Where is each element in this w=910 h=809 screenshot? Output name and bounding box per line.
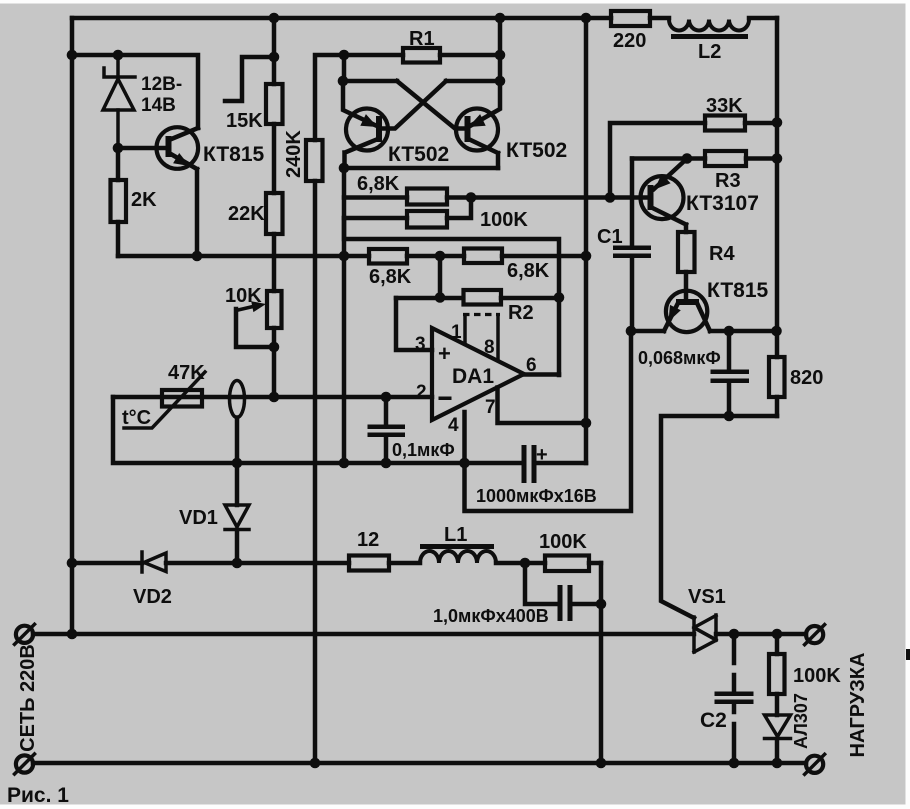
svg-text:R2: R2 — [508, 302, 534, 324]
wire pin3 hook — [396, 298, 432, 350]
terminal mains bottom — [15, 754, 35, 774]
resistor 22K — [228, 124, 283, 234]
svg-text:VS1: VS1 — [688, 586, 726, 608]
svg-text:DA1: DA1 — [452, 365, 494, 388]
resistor 6,8K right row256 — [464, 249, 550, 283]
node rowB cap — [724, 326, 735, 337]
resistor 820 — [769, 357, 823, 397]
node row463 pin4 — [459, 458, 470, 469]
wire top supply rail — [72, 16, 777, 21]
wire row416 gate — [661, 416, 777, 618]
node row55 left rail — [67, 50, 78, 61]
node row397 x274 — [269, 392, 280, 403]
wire row55 to KT815 collector — [72, 55, 198, 128]
svg-text:100K: 100K — [480, 209, 528, 231]
svg-text:СЕТЬ 220В: СЕТЬ 220В — [17, 644, 39, 752]
svg-text:12В-: 12В- — [141, 74, 182, 95]
transistor Q KT815 right — [664, 279, 769, 332]
inductor L1 — [420, 524, 496, 563]
svg-text:КТ815: КТ815 — [203, 143, 265, 166]
svg-text:15K: 15K — [226, 110, 263, 132]
wire 240K long vertical — [313, 181, 318, 763]
node rowB 820 — [771, 326, 782, 337]
node row256 x440 — [435, 251, 446, 262]
resistor 100K feedback row218 — [344, 198, 528, 232]
resistor 100K snubber — [539, 531, 589, 571]
svg-text:КТ502: КТ502 — [506, 139, 567, 162]
node cap400 right — [596, 599, 607, 610]
node wiper — [269, 342, 280, 353]
wire x601 — [599, 563, 604, 763]
svg-text:47K: 47K — [168, 362, 205, 384]
wire supply vertical x586 — [584, 18, 589, 463]
node 33K right — [772, 117, 783, 128]
svg-text:C1: C1 — [597, 226, 623, 248]
node bottom C2 — [729, 758, 740, 769]
node rowA C1 — [626, 326, 637, 337]
svg-text:НАГРУЗКА: НАГРУЗКА — [847, 653, 869, 758]
wire mains top row — [33, 632, 806, 637]
node top rail A — [269, 13, 280, 24]
svg-text:240K: 240K — [283, 130, 305, 178]
wire right rail x777 — [775, 18, 780, 416]
capacitor 1,0mkF400V — [433, 563, 601, 626]
capacitor 1000mkF — [476, 444, 597, 506]
svg-text:2K: 2K — [131, 189, 157, 211]
node row416 cap — [724, 411, 735, 422]
svg-text:6,8K: 6,8K — [357, 173, 400, 195]
triac VS1 — [688, 586, 726, 652]
svg-text:4: 4 — [448, 415, 459, 436]
inductor L2 — [669, 20, 749, 64]
wire x440 — [438, 256, 443, 298]
svg-text:6,8K: 6,8K — [507, 260, 550, 282]
wire row397 pin2 — [113, 395, 432, 400]
svg-text:100K: 100K — [539, 531, 587, 553]
diode VD2 — [72, 552, 237, 608]
node bottom x601 — [596, 758, 607, 769]
svg-text:22K: 22K — [228, 203, 265, 225]
resistor 100K load — [769, 634, 841, 715]
wire left vertical rail — [70, 18, 75, 634]
node row197 base — [605, 192, 616, 203]
node row463 x344 — [339, 458, 350, 469]
node row168 — [339, 163, 350, 174]
resistor R1 — [344, 28, 500, 63]
resistor R3 — [687, 151, 777, 192]
resistor 2K — [111, 148, 158, 256]
svg-text:3: 3 — [415, 334, 426, 355]
transistor Q KT502 left — [343, 81, 449, 168]
wire bottom rail — [33, 761, 806, 766]
node R3 right — [772, 153, 783, 164]
transistor Q KT502 right — [456, 80, 567, 168]
node VD1 bottom — [232, 558, 243, 569]
node R1 left — [339, 50, 350, 61]
wire row239 feedback — [344, 218, 559, 375]
svg-text:КТ502: КТ502 — [388, 143, 449, 166]
resistor 240K — [283, 55, 344, 181]
wire R2 row — [396, 296, 559, 301]
svg-text:L1: L1 — [444, 524, 467, 546]
svg-text:10K: 10K — [225, 285, 262, 307]
thermistor 47K — [122, 362, 205, 429]
node row55 zener top — [113, 50, 124, 61]
svg-text:VD2: VD2 — [133, 586, 172, 608]
wire x500 top — [498, 18, 503, 81]
wire row256 long — [118, 254, 586, 259]
node row81 left — [338, 76, 349, 87]
terminal mains top — [15, 624, 35, 644]
wire row168 — [344, 166, 498, 171]
node pin7 x586 — [581, 418, 592, 429]
resistor 6,8K left row256 — [369, 249, 412, 288]
node 15K top — [269, 52, 280, 63]
svg-text:0,1мкФ: 0,1мкФ — [392, 440, 455, 460]
svg-text:1,0мкФх400В: 1,0мкФх400В — [433, 606, 549, 626]
node row563 cap — [520, 558, 531, 569]
svg-text:КТ3107: КТ3107 — [686, 192, 759, 215]
svg-text:100K: 100K — [793, 665, 841, 687]
resistor R4 — [678, 232, 735, 301]
svg-text:Рис. 1: Рис. 1 — [7, 784, 69, 807]
node zener bottom / base — [113, 143, 124, 154]
op-amp DA1 — [415, 315, 537, 437]
svg-text:33K: 33K — [706, 95, 743, 117]
svg-text:КТ815: КТ815 — [707, 279, 769, 302]
resistor 12 — [349, 529, 389, 571]
capacitor 0,068mkF — [638, 331, 749, 416]
svg-text:0,068мкФ: 0,068мкФ — [638, 348, 721, 368]
transistor Q KT3107 — [641, 159, 759, 233]
svg-text:220: 220 — [613, 30, 646, 52]
wire cross coupling X — [383, 81, 464, 129]
node row256 emitter — [192, 251, 203, 262]
potentiometer 10K — [225, 234, 282, 397]
wire 15K trimmer tap hook — [225, 57, 274, 101]
node row463 shield — [232, 458, 243, 469]
node R1 right — [495, 50, 506, 61]
wire pin4 — [462, 412, 467, 463]
svg-text:+: + — [536, 444, 548, 466]
resistor 220 — [611, 11, 650, 52]
svg-text:L2: L2 — [698, 41, 721, 63]
wire row81 segments — [343, 79, 500, 84]
node emitter KT3107 — [682, 153, 693, 164]
wire KT3107 area — [610, 123, 777, 198]
node row397 cap — [381, 392, 392, 403]
node top rail C — [581, 13, 592, 24]
resistor 15K — [226, 18, 283, 132]
svg-text:8: 8 — [484, 337, 495, 358]
terminal load top — [805, 625, 825, 645]
node row81 right — [495, 76, 506, 87]
diode VD1 — [179, 463, 249, 563]
svg-text:2: 2 — [416, 382, 427, 403]
wire row197 right — [447, 195, 650, 200]
edge artifact tick — [906, 649, 910, 660]
node mains C2 — [729, 629, 740, 640]
wire emitter row A — [632, 329, 664, 334]
wire emitter row to C1 — [632, 156, 687, 161]
svg-text:АЛ307: АЛ307 — [791, 693, 811, 749]
svg-text:+: + — [438, 341, 451, 366]
wire loop pin4 to emitter row — [465, 331, 632, 511]
wire pin6 output — [524, 372, 559, 377]
svg-text:1000мкФх16В: 1000мкФх16В — [476, 486, 597, 506]
svg-text:1: 1 — [451, 322, 462, 343]
resistor 6,8K row197 — [344, 173, 447, 205]
node row197 stub — [466, 192, 477, 203]
node bottom LED — [772, 758, 783, 769]
shield oval — [230, 381, 245, 464]
svg-text:R1: R1 — [409, 28, 435, 50]
svg-text:VD1: VD1 — [179, 507, 218, 529]
svg-text:R3: R3 — [715, 170, 741, 192]
wire x344 long — [342, 168, 347, 463]
capacitor C2 — [700, 634, 754, 763]
wire sensor box — [113, 397, 586, 463]
capacitor C1 — [597, 159, 651, 332]
terminal load bottom — [805, 754, 825, 774]
resistor R2 — [464, 290, 534, 324]
wire row563 — [237, 561, 601, 566]
svg-text:14В: 14В — [141, 95, 176, 116]
svg-text:C2: C2 — [700, 709, 727, 732]
wire pin7 — [498, 388, 587, 424]
zener diode 12V-14V — [103, 55, 182, 148]
svg-text:12: 12 — [357, 529, 379, 551]
LED AL307 — [765, 693, 812, 763]
wire x344 top — [342, 55, 347, 81]
node mains 100K — [772, 629, 783, 640]
node mains left rail — [67, 629, 78, 640]
svg-text:t°С: t°С — [122, 407, 151, 429]
node row256 x586 — [581, 251, 592, 262]
capacitor 0,1mkF — [368, 397, 455, 463]
node top rail B — [495, 13, 506, 24]
node VD2 left — [67, 558, 78, 569]
node bottom x315 — [310, 758, 321, 769]
wire collector row B — [710, 329, 777, 334]
svg-text:R4: R4 — [709, 243, 735, 265]
svg-text:820: 820 — [790, 367, 823, 389]
svg-text:6,8K: 6,8K — [369, 266, 412, 288]
node row463 cap — [381, 458, 392, 469]
node R2 right — [554, 292, 565, 303]
svg-text:7: 7 — [485, 397, 496, 418]
resistor 33K — [705, 95, 745, 131]
node R2 left — [435, 292, 446, 303]
transistor Q KT815 left — [118, 127, 265, 256]
node row256 x344 — [339, 251, 350, 262]
